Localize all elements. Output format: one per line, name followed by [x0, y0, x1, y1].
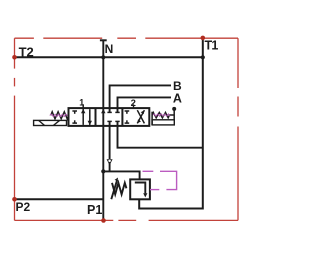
spring right end plate	[151, 112, 153, 125]
spring right inner (magenta wiggle)	[152, 114, 170, 116]
wire to work port A	[118, 97, 172, 112]
pilot line dashed (magenta) segment 3	[150, 189, 159, 191]
detent box right	[152, 120, 174, 125]
pilot line dashed (magenta) segment 1	[143, 170, 154, 172]
directional valve body U1	[69, 108, 150, 126]
position 2 blocked port T top	[125, 111, 130, 114]
svg-text:P1: P1	[87, 203, 102, 217]
position 1 up arrow	[81, 104, 85, 125]
svg-text:P2: P2	[16, 200, 31, 214]
port P1	[101, 218, 106, 223]
port T2	[12, 55, 17, 60]
node N junction dot	[101, 55, 105, 59]
svg-text:T1: T1	[205, 39, 219, 53]
wire to work port B	[110, 85, 171, 112]
check valve (ball in seat)	[107, 159, 113, 165]
wire P2 line	[15, 198, 104, 200]
enclosure dashed red border left	[14, 38, 16, 220]
position 1 blocked port T bottom	[72, 120, 77, 123]
enclosure dashed red border top	[15, 37, 239, 39]
position 1 down arrow	[88, 109, 92, 125]
relief valve RV body	[130, 179, 150, 199]
wire valve B-port down to check valve and relief inlet	[109, 121, 111, 171]
spring right (black zigzag)	[152, 112, 174, 118]
svg-text:N: N	[105, 42, 114, 56]
position 2 label leader	[133, 104, 135, 108]
valve position divider 0|2	[121, 108, 123, 126]
pilot stub to A with node dot	[173, 109, 175, 120]
node bypass-relief junction dot	[101, 169, 105, 173]
wire valve A-port down then right to T1 line	[118, 121, 203, 147]
pilot line dashed (magenta) corner run	[160, 171, 177, 189]
svg-text:T2: T2	[19, 44, 34, 59]
svg-text:A: A	[173, 91, 182, 105]
relief valve adjustment arrow	[111, 178, 118, 200]
position 2 blocked port T bottom	[125, 120, 130, 123]
node T1 junction dot	[201, 55, 205, 59]
detent (lever plate)	[34, 120, 67, 125]
centre position bypass up arrow	[101, 109, 105, 113]
svg-text:1: 1	[79, 97, 84, 107]
svg-text:2: 2	[131, 98, 136, 109]
position 1 blocked port T top	[72, 111, 77, 114]
wire P1 riser / bypass line	[102, 57, 104, 220]
centre position blocked stub bars bottom	[107, 120, 119, 122]
port P2	[12, 197, 17, 202]
wire T1 return line (right side)	[139, 38, 203, 209]
spring left inner (magenta wiggle)	[50, 114, 68, 116]
port T1	[201, 36, 206, 41]
relief valve spring	[112, 183, 126, 194]
enclosure dashed red border right	[237, 38, 239, 220]
enclosure dashed red border bottom	[15, 219, 239, 221]
wire N stub	[102, 40, 104, 57]
wire relief inlet from junction	[103, 171, 139, 179]
wire T2 to T1 junction (top tank line)	[15, 56, 204, 58]
plug at N	[100, 39, 107, 41]
valve position divider 1|0	[95, 108, 97, 126]
centre position blocked stub bars top	[107, 111, 119, 113]
relief valve internal flow arrow	[135, 183, 148, 198]
spring left (black zigzag)	[51, 112, 69, 119]
position 2 crossed arrows	[137, 110, 144, 123]
